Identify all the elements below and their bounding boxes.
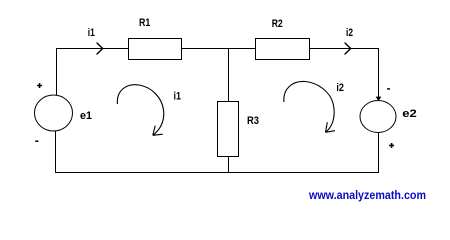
- svg-text:R2: R2: [272, 18, 283, 30]
- svg-text:R1: R1: [139, 17, 150, 29]
- svg-text:e2: e2: [402, 108, 417, 120]
- svg-text:R3: R3: [247, 115, 259, 127]
- svg-text:i1: i1: [174, 90, 182, 102]
- svg-text:e1: e1: [80, 110, 92, 122]
- svg-text:i2: i2: [346, 27, 353, 39]
- svg-text:i2: i2: [336, 82, 344, 94]
- svg-text:i1: i1: [88, 27, 95, 39]
- svg-text:www.analyzemath.com: www.analyzemath.com: [308, 188, 426, 202]
